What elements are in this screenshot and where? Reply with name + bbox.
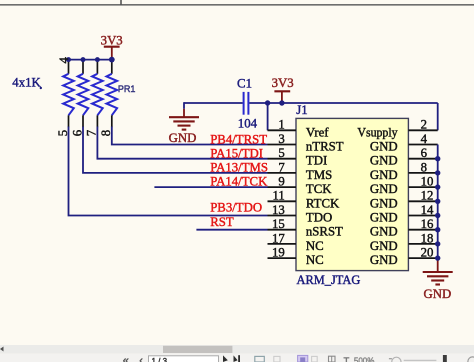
junction dot pin 16	[435, 227, 440, 232]
power symbol 3V3 (PR1) bar	[104, 46, 120, 48]
svg-text:GND: GND	[370, 154, 398, 168]
svg-text:500%: 500%	[354, 356, 374, 362]
pin 19 stub	[268, 257, 297, 259]
svg-text:18: 18	[421, 231, 434, 245]
pin 6 stub	[408, 158, 437, 160]
svg-text:6: 6	[421, 146, 428, 160]
wire R4 to pin3 row (PB4/TRST)	[112, 127, 268, 145]
svg-text:4: 4	[421, 132, 428, 146]
svg-text:GND: GND	[370, 253, 398, 267]
svg-text:NC: NC	[306, 239, 324, 253]
pin 14 stub	[408, 215, 437, 217]
toolbar strip	[0, 354, 474, 362]
svg-text:1 / 3: 1 / 3	[152, 357, 168, 362]
wire GND bus right	[437, 145, 439, 259]
wire drop to pin1	[267, 103, 269, 130]
junction dot 3V3 J1	[279, 100, 284, 105]
resistor PR1 element C zigzag	[92, 74, 103, 116]
pin 9 stub	[268, 186, 297, 188]
svg-text:PA15/TDI: PA15/TDI	[210, 146, 263, 160]
resistor pack top wire	[69, 59, 113, 61]
svg-text:TMS: TMS	[306, 168, 332, 182]
svg-text:RST: RST	[210, 215, 234, 229]
toolbar skip button	[234, 355, 238, 362]
svg-text:3: 3	[278, 132, 284, 146]
svg-text:T: T	[344, 356, 350, 362]
svg-text:PR1: PR1	[118, 84, 136, 94]
sheet border tick	[120, 0, 122, 5]
svg-text:16: 16	[421, 217, 434, 231]
svg-text:‹: ‹	[139, 355, 143, 362]
svg-text:9: 9	[278, 175, 284, 189]
ground symbol GND2 bars	[423, 271, 453, 273]
svg-text:Vref: Vref	[306, 125, 329, 139]
pin 8 stub	[408, 172, 437, 174]
junction dot pin 20	[435, 255, 440, 260]
svg-text:PB4/TRST: PB4/TRST	[210, 132, 267, 146]
svg-text:TDI: TDI	[306, 154, 327, 168]
svg-text:13: 13	[272, 203, 285, 217]
resistor PR1 element A pin stub bottom	[68, 115, 70, 127]
svg-text:RTCK: RTCK	[306, 196, 340, 210]
svg-text:GND: GND	[370, 211, 398, 225]
svg-text:J1: J1	[296, 103, 307, 117]
wire R3 to pin5 row (PA15/TDI)	[97, 127, 267, 159]
resistor PR1 element A pin stub top	[68, 60, 70, 74]
junction dot pin 14	[435, 213, 440, 218]
svg-text:15: 15	[272, 217, 285, 231]
wire pin15 row (RST)	[196, 229, 267, 231]
pin 1 stub	[268, 129, 297, 131]
ground symbol GND1 blue elbow	[183, 102, 185, 109]
svg-text:nSRST: nSRST	[306, 225, 343, 239]
svg-text:4: 4	[57, 57, 71, 64]
junction dot pin1 drop	[265, 100, 270, 105]
scrollbar thumb	[163, 346, 232, 353]
svg-text:«: «	[123, 355, 129, 362]
pin 3 stub	[268, 144, 297, 146]
power symbol 3V3 (J1) stem	[281, 91, 283, 103]
svg-text:104: 104	[238, 117, 258, 131]
svg-text:GND: GND	[370, 168, 398, 182]
svg-text:10: 10	[421, 175, 434, 189]
svg-text:GND: GND	[370, 140, 398, 154]
ground symbol GND1 stem	[183, 109, 185, 117]
wire pin9 row (PA14/TCK)	[154, 186, 267, 188]
sheet border line	[0, 4, 474, 6]
toolbar zoom-in button	[468, 357, 474, 362]
svg-text:TDO: TDO	[306, 211, 332, 225]
resistor PR1 element C pin stub top	[96, 60, 98, 74]
svg-text:PB3/TDO: PB3/TDO	[210, 200, 262, 214]
toolbar zoom slider handle	[443, 355, 447, 362]
svg-text:GND: GND	[169, 131, 197, 145]
pin 4 stub	[408, 144, 437, 146]
pin 7 stub	[268, 172, 297, 174]
pin 11 stub	[268, 200, 297, 202]
svg-text:11: 11	[272, 189, 284, 203]
junction dot pin 6	[435, 156, 440, 161]
resistor PR1 element A zigzag	[63, 74, 74, 116]
ground symbol GND1 bars	[169, 116, 199, 118]
resistor PR1 element B pin stub top	[82, 60, 84, 74]
svg-text:5: 5	[278, 146, 284, 160]
svg-text:GND: GND	[370, 196, 398, 210]
resistor PR1 element C pin stub bottom	[96, 115, 98, 127]
svg-text:C1: C1	[237, 77, 252, 91]
pin 10 stub	[408, 186, 437, 188]
toolbar zoom slider	[404, 359, 437, 361]
svg-text:GND: GND	[370, 239, 398, 253]
wire R2 to pin7 row (PA13/TMS)	[83, 127, 268, 173]
junction dot pin 8	[435, 170, 440, 175]
wire drop to pin2 (right)	[437, 103, 439, 130]
svg-text:GND: GND	[424, 287, 452, 301]
resistor PR1 element D pin stub bottom	[111, 115, 113, 127]
svg-text:17: 17	[272, 231, 285, 245]
svg-text:12: 12	[421, 189, 434, 203]
svg-text:3V3: 3V3	[101, 34, 123, 48]
junction dot R2 top	[81, 57, 86, 62]
toolbar page input box	[149, 356, 219, 362]
svg-text:3V3: 3V3	[272, 76, 294, 90]
toolbar export icon	[255, 356, 264, 362]
junction dot pin 12	[435, 199, 440, 204]
pin 12 stub	[408, 200, 437, 202]
svg-text:NC: NC	[306, 253, 324, 267]
wire GND to C1	[184, 102, 243, 104]
pin 2 stub	[408, 129, 437, 131]
toolbar play button	[223, 355, 228, 362]
connector J1 body	[296, 118, 408, 270]
svg-text:GND: GND	[370, 225, 398, 239]
svg-text:PA13/TMS: PA13/TMS	[210, 161, 268, 175]
svg-text:ARM_JTAG: ARM_JTAG	[297, 273, 361, 287]
junction dot R4 / 3V3	[109, 57, 115, 63]
pin 17 stub	[268, 243, 297, 245]
svg-text:Vsupply: Vsupply	[357, 125, 398, 139]
resistor PR1 element B pin stub bottom	[82, 115, 84, 127]
resistor PR1 element D zigzag	[107, 74, 118, 116]
wire C1 to J1 top	[249, 102, 437, 104]
wire R1 to pin13 row (PB3/TDO)	[69, 127, 268, 216]
pin 13 stub	[268, 215, 297, 217]
svg-text:TCK: TCK	[306, 182, 332, 196]
svg-text:19: 19	[272, 246, 285, 260]
svg-text:nTRST: nTRST	[306, 140, 344, 154]
pin 5 stub	[268, 158, 297, 160]
svg-text:2: 2	[421, 118, 427, 132]
svg-text:PA14/TCK: PA14/TCK	[210, 175, 268, 189]
pin 20 stub	[408, 257, 437, 259]
svg-text:14: 14	[421, 203, 434, 217]
junction dot pin 18	[435, 241, 440, 246]
toolbar icon square light 2	[312, 356, 318, 362]
scrollbar track	[0, 345, 474, 354]
junction dot pin 10	[435, 184, 440, 189]
pin 18 stub	[408, 243, 437, 245]
svg-text:GND: GND	[370, 182, 398, 196]
svg-text:20: 20	[421, 246, 434, 260]
toolbar icon purple highlighted	[298, 355, 308, 362]
resistor PR1 element B zigzag	[78, 74, 89, 116]
toolbar icon square light	[274, 356, 280, 362]
scrollbar left arrow	[0, 347, 4, 352]
capacitor C1 plates	[243, 92, 245, 115]
power symbol 3V3 (J1) bar	[274, 90, 290, 92]
resistor PR1 element D pin stub top	[111, 60, 113, 74]
ground symbol GND2 stem	[437, 258, 439, 272]
junction dot R3 top	[95, 57, 100, 62]
power symbol 3V3 (PR1) stem	[111, 47, 113, 60]
svg-text:4x1K: 4x1K	[12, 75, 41, 89]
svg-text:8: 8	[421, 160, 427, 174]
toolbar zoom-out button	[392, 357, 401, 362]
pin 16 stub	[408, 229, 437, 231]
toolbar icon grid	[329, 356, 336, 362]
pin 15 stub	[268, 229, 297, 231]
svg-text:1: 1	[278, 118, 284, 132]
junction dot R1 top	[66, 57, 71, 62]
svg-text:7: 7	[278, 160, 285, 174]
